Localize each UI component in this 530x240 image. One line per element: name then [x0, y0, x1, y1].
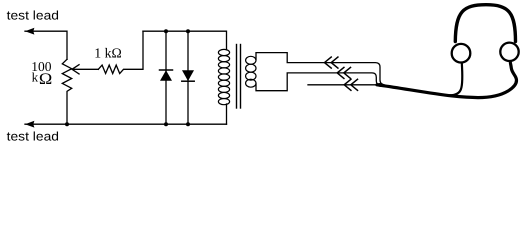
svg-text:test lead: test lead [7, 9, 59, 23]
svg-text:1 kΩ: 1 kΩ [94, 46, 122, 61]
svg-text:Ω: Ω [39, 71, 53, 88]
svg-text:test lead: test lead [7, 130, 59, 144]
svg-text:k: k [32, 70, 39, 85]
